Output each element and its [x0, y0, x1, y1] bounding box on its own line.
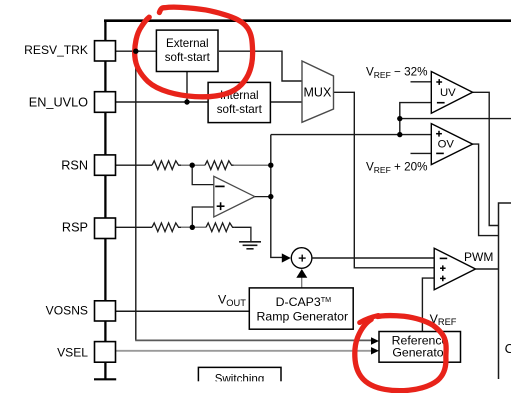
box Switching (cut off at bottom) — [198, 367, 281, 381]
pin RSN — [95, 155, 116, 175]
wire VOSNS to ramp generator — [116, 310, 250, 312]
node A junction — [190, 163, 195, 168]
wire MUX output to PWM + input — [334, 92, 435, 267]
wire VSEL to Reference Generator — [116, 350, 372, 352]
svg-text:OV: OV — [438, 138, 455, 150]
wire node C segment — [181, 226, 206, 228]
arrow into Reference Generator input 1 — [371, 337, 379, 344]
left spine wire — [104, 20, 106, 380]
top border of block — [104, 19, 511, 22]
pin VOSNS — [95, 301, 116, 321]
comparator PWM — [434, 248, 475, 290]
box Internal soft-start — [208, 82, 270, 122]
svg-text:External: External — [166, 37, 209, 50]
pin EN_UVLO — [95, 92, 116, 113]
node C junction — [190, 225, 195, 230]
wire VREF to PWM + input — [422, 278, 434, 331]
wire PWM output — [476, 268, 499, 270]
wire OV output to right block — [473, 144, 499, 236]
svg-text:RESV_TRK: RESV_TRK — [24, 43, 88, 57]
junction at sense line — [397, 116, 402, 121]
red annotation circle around Reference Generator — [355, 316, 446, 391]
summing junction — [291, 248, 312, 269]
svg-text:soft-start: soft-start — [217, 103, 263, 116]
junction at OV + line — [397, 132, 402, 137]
arrow into Reference Generator input 2 — [371, 347, 379, 354]
resistor R2 (RSN feedback) — [205, 161, 234, 170]
wire feedback to OV input — [271, 134, 432, 136]
wire External soft-start output to MUX top input — [219, 51, 302, 81]
svg-text:EN_UVLO: EN_UVLO — [29, 95, 88, 109]
svg-text:UV: UV — [440, 87, 456, 99]
svg-text:PWM: PWM — [464, 250, 493, 264]
bottom pin partial bar — [94, 378, 116, 380]
svg-text:RSP: RSP — [62, 221, 88, 235]
wire RSP feeder — [116, 226, 153, 228]
wire comparator sense to right edge — [400, 118, 511, 120]
comparator UV — [431, 72, 472, 114]
resistor R3 (RSP input) — [152, 223, 181, 232]
wire vertical from RESV_TRK node down to Reference Generator feed — [135, 51, 137, 340]
svg-text:soft-start: soft-start — [165, 51, 211, 64]
wire node A segment — [181, 164, 205, 166]
comparator OV — [431, 124, 472, 165]
resistor R4 (RSP to ground) — [206, 223, 234, 232]
RESV_TRK branch junction — [133, 49, 138, 54]
svg-text:RSN: RSN — [61, 158, 88, 172]
svg-text:Generator: Generator — [392, 346, 447, 360]
box D-CAP3 Ramp Generator — [249, 288, 353, 329]
wire R2 to node B — [234, 164, 271, 166]
svg-text:MUX: MUX — [304, 86, 332, 100]
wire node B vertical to summing junction — [271, 135, 286, 258]
box External soft-start — [156, 30, 218, 71]
right block partial box — [499, 203, 511, 379]
wire UV - input — [400, 103, 432, 135]
wire External soft-start bottom stub — [186, 71, 188, 102]
wire Internal soft-start output to MUX — [271, 101, 303, 103]
wire op-amp output to node B — [255, 196, 271, 198]
red annotation pen-end tick on circle 2 — [360, 315, 379, 322]
wire EN_UVLO to Internal soft-start — [116, 101, 209, 103]
ground — [239, 242, 261, 249]
svg-text:VOSNS: VOSNS — [46, 303, 88, 317]
resistor R1 (RSN input) — [152, 161, 181, 170]
node B junction — [268, 163, 273, 168]
svg-text:VSEL: VSEL — [57, 346, 88, 360]
op-amp U1 — [214, 176, 255, 217]
box Reference Generator — [379, 332, 461, 363]
op-amp output junction — [268, 194, 273, 199]
MUX trapezoid — [302, 61, 334, 122]
pin RESV_TRK — [95, 41, 116, 61]
wire summing junction to PWM - input — [312, 257, 434, 259]
summing junction input arrow — [282, 253, 291, 262]
svg-text:Ramp Generator: Ramp Generator — [257, 309, 349, 323]
wire UV + input — [411, 81, 432, 83]
wire node A to op-amp inverting input — [192, 165, 214, 184]
wire R4 to ground — [234, 227, 251, 241]
wire ramp arrow into summing junction — [301, 276, 303, 288]
wire node C to op-amp non-inverting input — [192, 207, 214, 227]
wire UV output to right block — [473, 92, 499, 225]
EN_UVLO branch junction — [184, 99, 189, 104]
wire OV - input — [411, 152, 432, 154]
wire RSN feeder — [116, 164, 153, 166]
wire track feed to Reference Generator — [135, 339, 372, 341]
pin RSP — [95, 218, 116, 239]
red annotation circle around External soft-start — [135, 7, 253, 97]
wire RESV_TRK to External soft-start — [116, 50, 157, 52]
pin VSEL — [95, 342, 116, 363]
svg-text:C: C — [505, 341, 511, 356]
